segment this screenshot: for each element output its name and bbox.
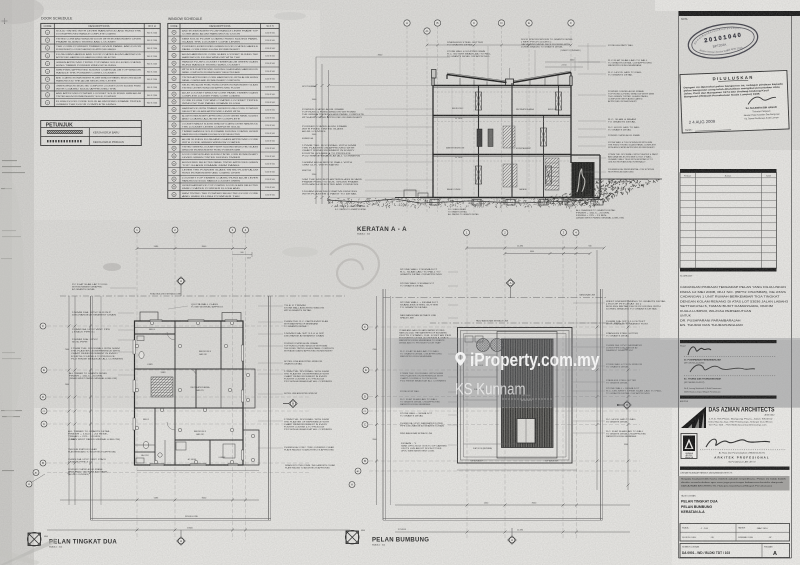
LAM logo box	[681, 434, 697, 459]
section right dimension ticks	[545, 61, 600, 63]
scan smudge top left corner	[0, 0, 44, 24]
professional architect signature	[706, 439, 770, 447]
floor plan grid dashed lines	[136, 233, 138, 540]
roof plan left leader lines	[448, 271, 458, 273]
floor plan interior walls	[174, 321, 176, 465]
roof plan PELAN BUMBUNG	[330, 234, 667, 546]
roof plan outer boundary	[458, 328, 573, 464]
section roof centre gutter	[506, 79, 514, 86]
revision table	[680, 169, 777, 173]
floor plan site boundary left	[90, 296, 92, 520]
floor plan bottom dimension lines	[137, 470, 259, 472]
signature 1	[688, 347, 711, 355]
section ground slab	[420, 197, 600, 199]
section grid bubble A	[404, 20, 410, 26]
section butterfly roof	[447, 75, 507, 83]
section door panel dark	[477, 129, 482, 147]
floor plan stair hatch	[151, 377, 173, 397]
grid bubbles row 1 2 3 4 for roof plan	[464, 230, 470, 236]
floor plan balcony right	[243, 369, 255, 408]
section ground profile line	[327, 199, 600, 203]
roof plan setback lines	[383, 297, 606, 299]
roof plan section marker B right	[623, 401, 631, 409]
floor plan left dimension lines	[68, 296, 70, 505]
section stair hatch mid	[503, 126, 515, 148]
watermark grey band	[378, 338, 800, 408]
door schedule table	[41, 17, 160, 107]
section drawing KERATAN A-A	[302, 20, 662, 236]
floor plan PELAN TINGKAT DUA	[26, 227, 350, 549]
roof plan section marker A top	[506, 279, 514, 287]
floor plan site boundary bottom	[91, 518, 272, 520]
floor plan section marker B right	[289, 399, 297, 407]
roof plan left flat roof area	[464, 355, 498, 400]
floor plan top dimension line second row	[233, 254, 253, 256]
drawing number block	[680, 544, 790, 558]
approval box DILULUSKAN	[680, 70, 789, 133]
floor plan grid bubbles left	[40, 323, 46, 329]
copyright grey box	[679, 476, 790, 491]
roof plan perimeter drain lines	[463, 334, 465, 458]
section dark stair tower	[572, 162, 595, 197]
architect firm logo triangle	[681, 407, 706, 429]
floor plan section marker A top	[177, 277, 185, 285]
roof plan site boundary bottom	[383, 518, 603, 520]
floor plan bath fixtures	[139, 352, 144, 359]
floor plan outer walls	[135, 321, 244, 465]
section top dim chain	[427, 44, 571, 46]
section ceiling lines	[434, 91, 570, 93]
floor plan porch box top left	[140, 312, 158, 321]
floor plan top dimension line	[137, 248, 246, 250]
scan smudge right of window schedule	[274, 12, 306, 20]
roof plan site boundary left	[382, 289, 384, 520]
floor plan left leader lines	[118, 312, 134, 314]
floor plan title symbol	[28, 533, 41, 546]
watermark iProperty.com.my	[455, 349, 600, 399]
roof plan bottom strip	[464, 443, 519, 445]
roof plan hatch frame	[497, 332, 557, 459]
roof plan grid dashed lines	[466, 234, 468, 540]
section chimney left parapet	[432, 70, 437, 79]
section parapet left	[432, 78, 434, 86]
roof plan dark hatched roof area	[502, 339, 554, 448]
roof plan right leader lines	[573, 302, 605, 304]
roof plan bottom dimension lines	[457, 469, 577, 471]
section footings	[430, 200, 439, 206]
signature 2	[690, 365, 755, 372]
floor plan top wall inner line	[135, 327, 244, 329]
section window symbols with cross bracing	[476, 92, 482, 110]
section right slope vegetation	[545, 179, 659, 206]
section top leader lines	[459, 54, 461, 75]
roof plan white opening in roof	[517, 419, 535, 444]
floor plan grid bubbles top	[134, 227, 140, 233]
floor plan window marks on walls	[150, 320, 162, 322]
roof plan grid bubbles left	[362, 324, 368, 330]
title block info table	[680, 524, 790, 542]
section walls	[432, 78, 434, 198]
section left dimension lines	[315, 57, 317, 204]
section grid bubble B	[434, 20, 440, 26]
legend PETUNJUK	[41, 121, 142, 146]
roof plan small vents	[465, 336, 473, 342]
roof plan right outer dimension line	[627, 300, 629, 490]
registration cross mark	[2, 18, 8, 24]
floor plan canopy box top right	[222, 313, 241, 322]
section interior partition lines	[451, 86, 453, 115]
section grid bubble A1	[424, 28, 430, 34]
floor plan extra fixture lines	[135, 444, 156, 446]
section grid bubble D	[498, 20, 504, 26]
section ground hatch speckle	[328, 198, 601, 209]
roof plan right dimension line	[596, 250, 598, 490]
title block divider bar	[680, 467, 790, 470]
floor plan small code circles	[150, 321, 153, 324]
pencil scribble swirl	[330, 244, 379, 288]
top black bar NOTA	[679, 11, 800, 16]
signature block bottom bar	[680, 396, 777, 399]
floor plan site boundary right	[268, 296, 270, 520]
left edge bleed-through marks	[2, 160, 17, 161]
window schedule table	[168, 17, 279, 198]
section right stair	[545, 158, 559, 190]
scan fold streak bottom left	[0, 538, 58, 565]
roof plan left dim vertical	[376, 296, 378, 505]
section terrace left of building	[404, 190, 416, 198]
section grid lines vertical	[406, 26, 408, 212]
floor plan right leader lines	[258, 305, 283, 307]
roof plan hatched tank circles	[477, 339, 490, 352]
section grid bubble F	[568, 20, 574, 26]
roof plan site boundary right	[600, 289, 602, 520]
floor plan setback dashed line	[60, 295, 345, 297]
section left leader lines	[365, 108, 433, 110]
floor plan door swing arcs	[167, 332, 175, 340]
section parapet right	[570, 76, 572, 86]
section floor slabs	[433, 85, 572, 87]
signature block bar	[680, 340, 777, 343]
scan smudge near plan	[103, 263, 121, 271]
roof plan top dimension lines	[467, 247, 604, 249]
section right leader lines	[578, 45, 606, 47]
round approval stamp 20101040	[686, 19, 760, 63]
section grid bubble C	[471, 20, 477, 26]
right column frame	[678, 11, 680, 558]
roof plan section marker A bottom	[508, 536, 516, 544]
section grid bubble E	[526, 20, 532, 26]
roof plan title symbol	[346, 531, 359, 544]
section roof support posts	[459, 78, 461, 86]
floor plan section marker A bottom	[177, 537, 185, 545]
scan smudge left mid	[0, 180, 24, 420]
